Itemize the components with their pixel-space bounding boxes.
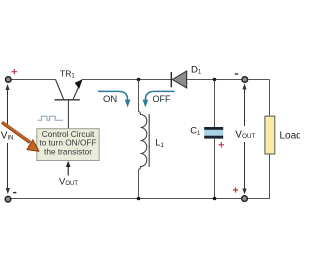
junction: top rail / L1 [137, 78, 141, 82]
junction: top rail / C1 [213, 78, 217, 82]
svg-text:OFF: OFF [153, 94, 171, 104]
svg-text:Load: Load [280, 131, 301, 142]
wire: C1 bottom lead [214, 139, 216, 199]
Vin measurement arrow (double headed) [5, 84, 9, 194]
orange arrow: Vin into control circuit [2, 122, 39, 151]
label + C1 polarity [219, 142, 225, 148]
Vout measurement arrow (double headed) [242, 84, 246, 195]
label: - output [235, 73, 238, 74]
terminal: output positive [242, 196, 248, 202]
svg-text:ON: ON [103, 94, 117, 105]
junction: bottom rail / L1 [137, 197, 141, 201]
junction: bottom rail / C1 [213, 197, 217, 201]
label: - input negative [13, 192, 16, 193]
wire: L1 top lead [138, 80, 140, 112]
arrowhead of TR1 emitter [75, 79, 83, 88]
transistor TR1 [55, 80, 82, 100]
wire: load bottom to bottom rail corner [248, 154, 270, 199]
terminal: output negative [242, 77, 248, 83]
control circuit box [37, 129, 99, 161]
waveform: control square wave [38, 116, 63, 120]
label: + output [233, 187, 238, 192]
wire: bottom rail [8, 198, 243, 200]
wire: top rail middle segment [82, 79, 171, 81]
diode D1 [170, 72, 172, 87]
wire: C1 top lead [214, 80, 216, 128]
wire: TR1 base to control circuit [67, 101, 69, 129]
capacitor C1 [204, 127, 223, 130]
arrow: ON current path [98, 91, 128, 100]
inductor L1 coil [139, 112, 147, 170]
load [265, 116, 275, 154]
wire: right side down to load [269, 80, 271, 117]
inductor L1 core line [148, 114, 150, 167]
terminal: input negative [5, 196, 11, 202]
wire: L1 bottom lead [138, 170, 140, 199]
wire: top rail left segment [8, 79, 56, 81]
arrow: Vout feedback into control circuit [67, 165, 69, 176]
wire: top rail right segment [187, 79, 270, 81]
svg-text:the transistor: the transistor [44, 146, 92, 156]
label: + input positive [12, 69, 18, 74]
arrow: OFF current path [145, 91, 174, 100]
terminal: input positive [6, 77, 12, 83]
